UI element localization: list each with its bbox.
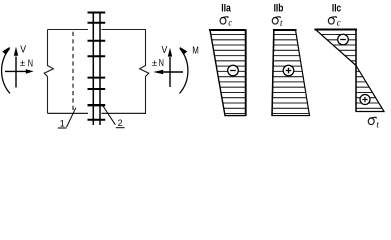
svg-text:c: c	[228, 17, 232, 27]
svg-text:±: ±	[20, 58, 25, 69]
svg-text:V: V	[162, 44, 168, 56]
svg-text:2: 2	[118, 118, 123, 128]
svg-text:t: t	[280, 18, 283, 28]
svg-text:c: c	[337, 18, 341, 28]
svg-text:t: t	[376, 119, 379, 129]
svg-text:M: M	[192, 44, 199, 56]
svg-text:N: N	[159, 58, 164, 69]
svg-text:V: V	[20, 44, 26, 56]
svg-text:IIb: IIb	[274, 2, 284, 14]
svg-text:1: 1	[60, 118, 65, 128]
svg-text:±: ±	[152, 58, 157, 69]
svg-text:N: N	[28, 58, 33, 69]
svg-text:IIa: IIa	[221, 2, 231, 14]
svg-text:IIc: IIc	[332, 2, 341, 14]
